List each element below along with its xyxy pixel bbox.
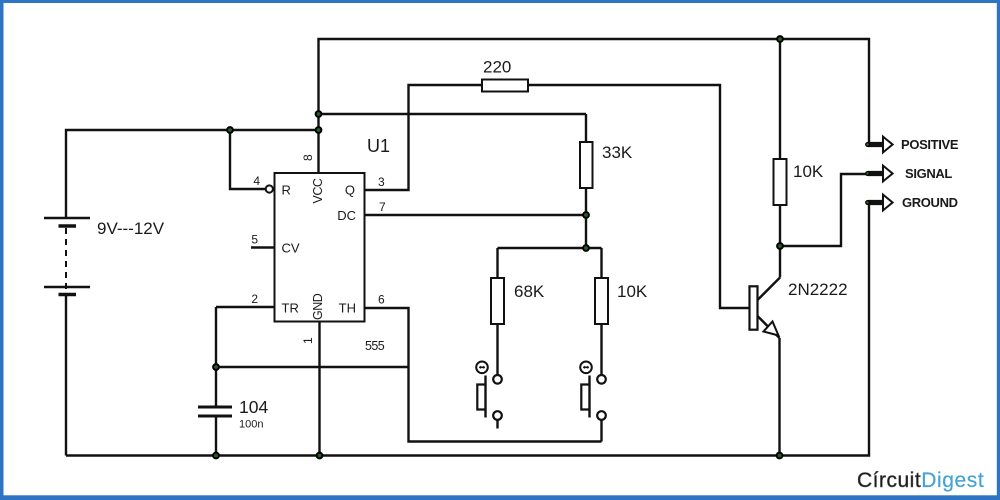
wire emitter diagonal [758, 316, 780, 338]
wire SIGNAL tap [780, 174, 866, 246]
svg-text:POSITIVE: POSITIVE [901, 137, 959, 152]
wire pin3 Q to 220 to transistor base [365, 85, 750, 308]
node cap-ground [213, 453, 219, 459]
pushbutton SW2 [580, 362, 606, 420]
svg-text:100n: 100n [239, 419, 263, 431]
node toprail-10K [777, 36, 783, 42]
resistor R-68K body [491, 278, 504, 324]
wire 10K-b vertical [600, 248, 602, 375]
wire collector vertical [779, 246, 781, 278]
svg-text:TR: TR [282, 301, 299, 316]
svg-text:R: R [282, 183, 291, 198]
pushbutton SW1 [476, 362, 502, 420]
capacitor C1 plates [198, 407, 232, 416]
wire SW1 bottom stub [496, 420, 498, 429]
svg-text:5: 5 [251, 233, 258, 247]
wire battery top to IC rail [66, 130, 319, 217]
wire pin4 reset drop [230, 130, 266, 189]
port SIGNAL arrow [866, 166, 893, 182]
port POSITIVE arrow [866, 137, 893, 153]
wire TR-TH link [216, 366, 409, 368]
wire emitter vertical [778, 338, 780, 456]
node gnd-rail [317, 453, 323, 459]
resistor R-10K pushbutton branch body [595, 278, 608, 324]
resistor R-33K body [580, 142, 593, 188]
svg-text:GROUND: GROUND [902, 195, 958, 210]
resistor R-10K collector body [774, 159, 787, 205]
transistor emitter arrowhead [764, 322, 779, 336]
battery B1 9V---12V [44, 218, 90, 318]
svg-text:1: 1 [301, 337, 315, 344]
transistor Q1 2N2222 base bar [750, 286, 758, 329]
svg-text:U1: U1 [367, 136, 390, 156]
port GROUND arrow [866, 195, 893, 211]
svg-text:SIGNAL: SIGNAL [905, 166, 952, 181]
node 33K-header [583, 245, 589, 251]
pin4 bubble [266, 185, 273, 192]
svg-text:CírcuitDigest: CírcuitDigest [857, 469, 984, 492]
wire cap bottom [215, 417, 217, 456]
node DC-33K [583, 212, 589, 218]
node collector-signal [777, 243, 783, 249]
wire pin2 TR stub [216, 306, 275, 308]
wire collector diagonal [758, 278, 781, 301]
svg-text:33K: 33K [602, 143, 633, 162]
node vcc-33K [316, 111, 322, 117]
svg-text:6: 6 [378, 293, 385, 307]
wire pin1 GND vertical [318, 322, 320, 456]
svg-text:104: 104 [239, 397, 268, 417]
op IC U1 555 body [275, 173, 365, 322]
wire 33K vertical [585, 114, 587, 248]
wire 68K/10K header [498, 247, 602, 249]
svg-text:68K: 68K [514, 282, 545, 301]
node TR-cap [213, 364, 219, 370]
svg-text:10K: 10K [793, 162, 824, 181]
svg-text:2: 2 [251, 292, 258, 306]
svg-text:3: 3 [378, 175, 385, 189]
node battery-pin4 [227, 127, 233, 133]
wire SW2 bottom stub [600, 420, 602, 442]
wire 10K-c vertical from top rail [779, 39, 781, 246]
svg-text:220: 220 [483, 58, 511, 77]
wire pin5 CV stub [251, 246, 275, 248]
svg-text:4: 4 [253, 174, 260, 188]
svg-text:CV: CV [282, 241, 300, 256]
svg-text:VCC: VCC [311, 178, 325, 203]
svg-text:9V---12V: 9V---12V [97, 219, 165, 238]
wire VCC pin8 vertical and top rail to POSITIVE [319, 39, 870, 173]
node emitter-rail [777, 453, 783, 459]
wire 68K vertical [496, 248, 498, 375]
wire pin6 TH loop [365, 308, 602, 442]
node vcc-battery [316, 127, 322, 133]
svg-text:GND: GND [311, 293, 325, 320]
svg-text:8: 8 [301, 154, 315, 161]
svg-text:2N2222: 2N2222 [788, 280, 848, 299]
svg-text:555: 555 [365, 339, 385, 353]
wire pin7 DC horizontal [365, 214, 587, 216]
wire TR to cap top [215, 307, 217, 406]
svg-text:DC: DC [337, 208, 356, 223]
svg-text:Q: Q [345, 183, 355, 198]
svg-text:TH: TH [339, 301, 356, 316]
svg-text:7: 7 [379, 200, 386, 214]
wire bottom rail to GROUND port [66, 203, 869, 456]
svg-text:10K: 10K [617, 282, 648, 301]
wire 33K branch horizontal [319, 113, 587, 115]
wire battery bottom [65, 295, 67, 456]
resistor R-220 body [482, 80, 528, 92]
